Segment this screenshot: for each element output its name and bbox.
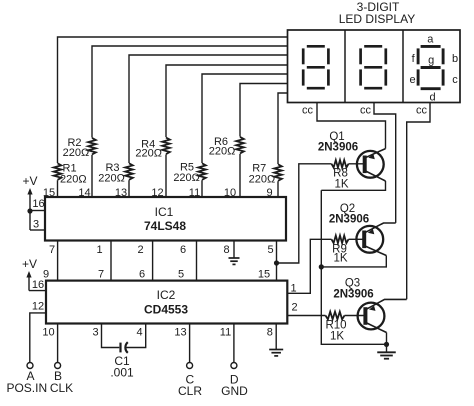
svg-text:15: 15 (258, 269, 270, 281)
svg-text:cc: cc (416, 105, 428, 117)
wire IC2 pin 13 to terminal C (189, 324, 191, 363)
wire IC2 pin 11 to terminal D (233, 324, 235, 363)
svg-text:CD4553: CD4553 (144, 303, 188, 317)
svg-text:7: 7 (49, 244, 55, 256)
resistor R10 1K (326, 311, 345, 320)
svg-text:16: 16 (32, 279, 44, 291)
wire cc2 to Q2 emitter rail (374, 103, 396, 223)
svg-text:10: 10 (224, 187, 236, 199)
svg-text:3: 3 (33, 219, 39, 231)
svg-text:220Ω: 220Ω (135, 148, 162, 160)
wire IC2 pin 1 to R9 (287, 239, 331, 293)
svg-text:a: a (427, 33, 434, 45)
LED display digit divider 1 (344, 30, 346, 103)
svg-text:g: g (428, 54, 434, 66)
resistor R7 220 ohm (273, 164, 282, 181)
node junction pin5/pin15/R8 (274, 260, 279, 265)
svg-text:11: 11 (189, 187, 200, 199)
svg-text:220Ω: 220Ω (173, 172, 200, 184)
op IC2 CD4553 box (46, 281, 287, 324)
wire IC2 pin 4 (126, 324, 146, 348)
node junction Q3 collector ground (384, 342, 389, 347)
svg-text:POS.IN: POS.IN (6, 381, 47, 395)
resistor R5 220 ohm (197, 163, 206, 180)
terminal D (231, 363, 237, 369)
transistor Q3 2N3906 (358, 303, 385, 330)
resistor R3 220 ohm (124, 163, 133, 180)
svg-text:2N3906: 2N3906 (318, 142, 358, 154)
svg-text:7: 7 (98, 269, 104, 281)
Q2 base wire from R9 (349, 238, 365, 240)
Q3 emitter (366, 299, 407, 309)
svg-text:cc: cc (302, 105, 314, 117)
capacitor C1 .001 (119, 343, 121, 353)
svg-text:220Ω: 220Ω (209, 146, 236, 158)
wire IC1 pin 16 (30, 210, 45, 212)
svg-text:10: 10 (42, 327, 54, 339)
op IC1 74LS48 box (45, 197, 286, 241)
svg-text:2: 2 (291, 302, 297, 314)
resistor R2 220 ohm (87, 138, 96, 155)
svg-text:12: 12 (151, 187, 163, 199)
wire IC2 pin 10 to terminal B (57, 324, 59, 363)
svg-text:1K: 1K (334, 179, 348, 191)
Q3 base wire from R10 (345, 315, 366, 317)
svg-text:CLR: CLR (178, 384, 202, 398)
svg-text:16: 16 (32, 198, 44, 210)
svg-text:12: 12 (32, 301, 44, 313)
svg-text:IC2: IC2 (157, 288, 176, 302)
LED display digit 1 segments (307, 45, 325, 48)
svg-text:2N3906: 2N3906 (329, 214, 369, 226)
svg-text:IC1: IC1 (155, 205, 174, 219)
svg-text:220Ω: 220Ω (98, 173, 125, 185)
terminal A (27, 363, 33, 369)
wire Q2 collector to rail (321, 256, 386, 267)
Q1 base wire from R8 (349, 163, 365, 165)
wire segment line R1 to display (58, 37, 288, 197)
svg-text:.001: .001 (110, 366, 134, 380)
terminal C (187, 363, 193, 369)
wire segment line R2 to display (92, 46, 288, 197)
svg-text:220Ω: 220Ω (249, 173, 276, 185)
svg-text:3: 3 (92, 327, 98, 339)
svg-text:+V: +V (22, 174, 37, 188)
svg-text:5: 5 (178, 269, 184, 281)
svg-text:6: 6 (139, 269, 145, 281)
terminal B (55, 363, 61, 369)
LED display digit 3 segments (421, 45, 441, 48)
wire segment line R4 to display (166, 65, 288, 197)
ground IC2 pin 8 (269, 349, 283, 351)
svg-text:1K: 1K (333, 253, 347, 265)
svg-text:220Ω: 220Ω (63, 147, 90, 159)
wire IC1 pin 8 to ground (233, 241, 235, 258)
svg-text:LED DISPLAY: LED DISPLAY (339, 12, 415, 26)
LED display DISP1 outline (288, 30, 461, 103)
wire IC2 pin 16 (29, 290, 46, 292)
wire cc1 to Q1 emitter (317, 103, 386, 149)
resistor R1 220 ohm (53, 163, 62, 180)
wire IC1 pin 3 (30, 229, 45, 231)
svg-text:220Ω: 220Ω (60, 174, 87, 186)
svg-text:1K: 1K (330, 331, 344, 343)
wire segment line R5 to display (202, 74, 288, 197)
svg-text:1: 1 (96, 244, 102, 256)
svg-text:11: 11 (220, 327, 231, 339)
svg-text:13: 13 (115, 187, 127, 199)
wire IC1 to IC2 (57, 241, 59, 281)
svg-text:5: 5 (267, 244, 273, 256)
wire IC2 pin 2 to R10 (287, 315, 325, 317)
resistor R4 220 ohm (161, 137, 170, 154)
ground Q3 (377, 351, 396, 353)
svg-text:2: 2 (137, 244, 143, 256)
svg-text:2N3906: 2N3906 (333, 289, 373, 301)
wire cc3 to Q3 emitter rail (407, 103, 430, 300)
wire IC2 pin 12 to terminal A (30, 313, 46, 363)
node junction Q2 collector rail (319, 264, 324, 269)
Q3 collector (366, 323, 387, 333)
Q2 emitter (365, 223, 396, 233)
Q1 collector (365, 171, 385, 181)
wire segment line R3 to display (129, 55, 288, 197)
wire collector ground rail (321, 190, 386, 344)
wire IC2 pin 3 (102, 324, 120, 348)
wire segment line R7 to display (278, 93, 288, 197)
svg-text:GND: GND (221, 384, 248, 398)
svg-text:15: 15 (43, 187, 55, 199)
svg-text:4: 4 (136, 327, 142, 339)
svg-text:74LS48: 74LS48 (144, 219, 186, 233)
wire IC1 pin 5 (276, 241, 278, 281)
wire Q1 collector to rail (321, 181, 385, 190)
svg-text:13: 13 (174, 327, 186, 339)
svg-text:14: 14 (78, 187, 90, 199)
wire IC1 to IC2 (196, 241, 198, 281)
resistor R9 1K (332, 235, 349, 244)
wire Q3 collector to ground (386, 333, 388, 353)
Q2 collector (365, 246, 387, 256)
transistor Q1 2N3906 (357, 151, 384, 178)
wire junction to R8 (277, 164, 332, 263)
wire IC2 pin 8 to ground (275, 324, 277, 350)
Q1 emitter (365, 149, 385, 158)
svg-text:b: b (452, 53, 458, 65)
wire segment line R6 to display (240, 84, 288, 198)
wire IC1 to IC2 (110, 241, 112, 281)
transistor Q2 2N3906 (356, 226, 383, 253)
LED display digit divider 2 (402, 30, 404, 103)
LED display digit 2 segments (364, 45, 382, 48)
svg-text:cc: cc (360, 105, 372, 117)
svg-text:+V: +V (22, 257, 37, 271)
svg-text:8: 8 (223, 244, 229, 256)
svg-text:d: d (429, 92, 435, 104)
node junction IC1 pin16/3 (27, 208, 32, 213)
svg-text:e: e (409, 74, 415, 86)
svg-text:6: 6 (180, 244, 186, 256)
resistor R8 1K (332, 159, 349, 168)
wire IC1 to IC2 (152, 241, 154, 281)
ground IC1 pin 8 (229, 257, 240, 259)
svg-text:8: 8 (267, 327, 273, 339)
svg-text:CLK: CLK (50, 381, 73, 395)
svg-text:9: 9 (266, 187, 272, 199)
svg-text:c: c (452, 74, 458, 86)
resistor R6 220 ohm (235, 137, 244, 154)
